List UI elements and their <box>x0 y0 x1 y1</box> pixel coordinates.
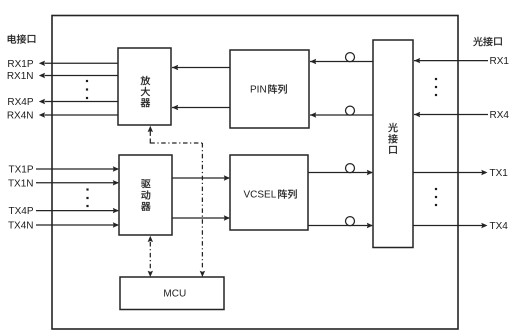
svg-text:MCU: MCU <box>163 289 186 300</box>
svg-text:TX4N: TX4N <box>8 221 34 232</box>
svg-text:RX4: RX4 <box>490 110 510 121</box>
svg-text:TX1P: TX1P <box>8 165 33 176</box>
svg-text:RX4P: RX4P <box>7 97 33 108</box>
svg-text:RX1: RX1 <box>490 56 510 67</box>
svg-text:TX1: TX1 <box>490 168 509 179</box>
svg-text:TX1N: TX1N <box>8 178 34 189</box>
svg-text:RX4N: RX4N <box>7 111 34 122</box>
svg-text:RX1N: RX1N <box>7 71 34 82</box>
svg-text:TX4: TX4 <box>490 221 509 232</box>
svg-text:TX4P: TX4P <box>8 206 33 217</box>
svg-text:RX1P: RX1P <box>7 59 33 70</box>
svg-text:PIN: PIN <box>250 85 267 96</box>
svg-text:VCSEL: VCSEL <box>244 190 277 201</box>
